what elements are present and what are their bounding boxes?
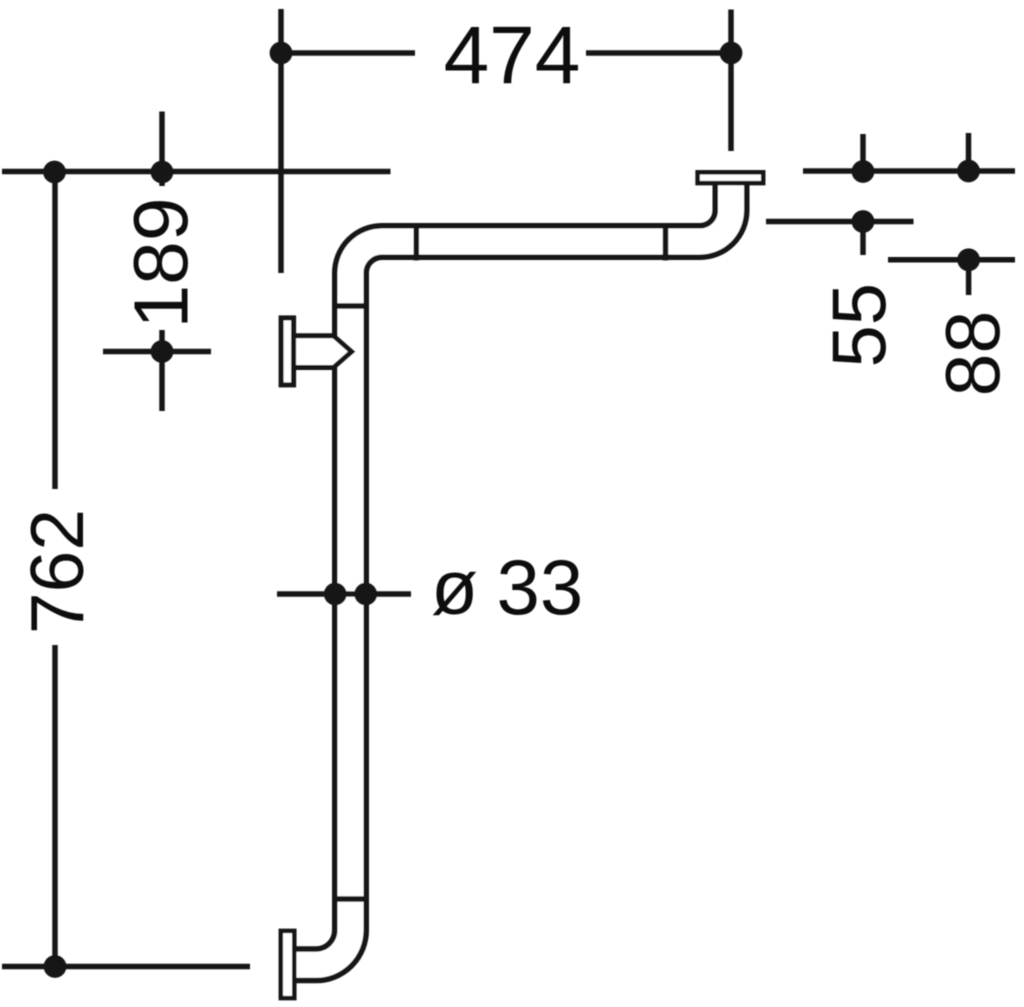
dim 88: tick below (966, 260, 972, 295)
right wall tick A (860, 134, 866, 172)
tube joint line lower (vertical tube) (333, 896, 370, 902)
dim 189: lower dot (151, 340, 174, 363)
grab-bar tube (white core) (294, 185, 731, 965)
dim 474: dot left (270, 42, 293, 65)
dim 762: line upper part (52, 172, 58, 489)
svg-text:55: 55 (818, 283, 903, 368)
dim diameter 33: dot left (324, 583, 347, 606)
tube joint line upper (vertical tube) (333, 303, 370, 309)
svg-text:189: 189 (119, 198, 205, 329)
tube joint line left (horizontal tube) (414, 223, 420, 260)
dim 88: dot (957, 248, 980, 271)
right wall dot A (852, 160, 875, 183)
dim 55: dimension line (766, 219, 914, 225)
tube joint line right (horizontal tube) (663, 223, 669, 260)
dim diameter 33: leader line (277, 591, 411, 597)
dim 474: dimension line left part (281, 50, 415, 56)
dim 88: dimension line (888, 257, 1015, 263)
dim 762: upper dot (43, 161, 66, 184)
dim 762: lower dot (44, 955, 67, 978)
dim 189: lower line (159, 330, 165, 411)
svg-text:474: 474 (444, 10, 581, 101)
svg-text:88: 88 (931, 311, 1017, 397)
dim 474: dimension line right part (586, 50, 731, 56)
wall reference line right (803, 168, 1015, 174)
wall reference line left (2, 169, 391, 175)
right wall dot B (957, 160, 980, 183)
svg-text:33: 33 (497, 543, 584, 631)
grab-bar tube (outer black outline) (294, 185, 731, 965)
dim 474: extension line right (728, 10, 734, 152)
dim 55: dot (852, 210, 875, 233)
dim 762: line lower part (52, 645, 58, 967)
bottom reference line (2, 964, 250, 970)
dim 189: upper dot (151, 161, 174, 184)
bottom wall flange (281, 931, 295, 998)
support bracket wall plate (281, 318, 294, 385)
dim 474: extension line left (278, 9, 284, 273)
svg-text:ø: ø (431, 545, 478, 631)
dim 474: dot right (720, 42, 743, 65)
dim 189: upper tick (159, 112, 165, 187)
right wall tick B (966, 133, 972, 172)
support bracket arm (293, 336, 352, 368)
dim diameter 33: dot right (354, 583, 377, 606)
top-right wall flange (698, 172, 764, 183)
dim 55: tick below (860, 222, 866, 255)
svg-text:762: 762 (15, 509, 99, 634)
dim 189: lower cross line (103, 349, 211, 355)
